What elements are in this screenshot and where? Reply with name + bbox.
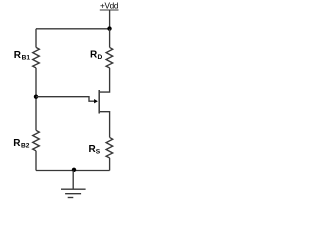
wire RD top: [109, 29, 111, 48]
svg-text:R: R: [14, 50, 22, 61]
transistor Q1 gate arrow: [94, 99, 98, 103]
wire top rail: [36, 28, 110, 30]
resistor RD: [106, 47, 113, 68]
label RS: [89, 144, 101, 156]
resistor RS: [106, 137, 113, 158]
transistor Q1 channel bar: [98, 90, 100, 114]
node top junction dot: [107, 26, 111, 30]
wire Vdd stem: [109, 10, 111, 29]
node ground junction dot: [72, 168, 76, 172]
transistor Q1 source lead: [100, 112, 110, 138]
resistor RB2: [33, 130, 40, 151]
wire RS bottom: [109, 158, 111, 171]
label RD: [90, 50, 103, 62]
wire gate: [36, 97, 94, 102]
wire left branch middle: [35, 68, 37, 130]
svg-text:S: S: [96, 149, 101, 156]
node gate junction dot: [34, 95, 38, 99]
resistor RB1: [33, 47, 40, 68]
wire bottom rail: [36, 170, 110, 172]
power label +Vdd: [100, 1, 119, 10]
svg-text:D: D: [98, 54, 103, 61]
wire left branch bottom: [35, 151, 37, 171]
ground: [61, 171, 86, 198]
transistor Q1 drain lead: [100, 68, 110, 92]
svg-text:+Vdd: +Vdd: [100, 1, 119, 10]
svg-text:B2: B2: [21, 143, 30, 150]
label RB2: [13, 138, 29, 150]
wire left branch top: [35, 29, 37, 48]
label RB1: [14, 50, 31, 62]
svg-text:B1: B1: [22, 55, 31, 62]
